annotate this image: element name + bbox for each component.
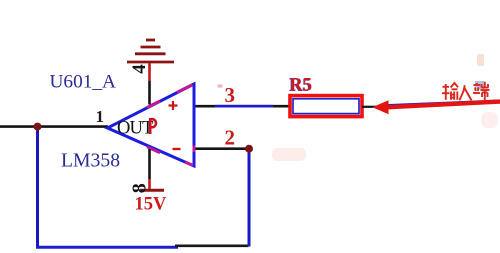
ground bbox=[127, 40, 174, 62]
resistor R5 body bbox=[290, 96, 362, 117]
op-amp + input symbol bbox=[169, 101, 178, 110]
svg-text:4: 4 bbox=[129, 64, 150, 74]
wire: feedback right vertical bbox=[248, 149, 251, 247]
wire: pin 8 power stub (op-amp bottom to 15V) bbox=[148, 149, 151, 179]
svg-text:1: 1 bbox=[96, 107, 105, 126]
wire: pin 1 output wire (left horizontal) bbox=[0, 125, 108, 128]
svg-text:2: 2 bbox=[225, 126, 236, 150]
svg-text:3: 3 bbox=[225, 83, 236, 107]
wire: pin 4 power stub (ground to op-amp top) bbox=[148, 63, 151, 81]
输入端 input-terminal label (drawn strokes) bbox=[442, 82, 490, 101]
wire: pin 2 inverting input wire bbox=[194, 147, 247, 150]
char 入 bbox=[460, 85, 472, 100]
faint pink photo artifacts bbox=[272, 148, 306, 161]
立 radical bbox=[474, 84, 481, 86]
wire: feedback left vertical bbox=[36, 128, 39, 249]
char 端 bbox=[473, 82, 490, 100]
magenta artifacts on triangle edges bbox=[147, 85, 194, 166]
车 radical bbox=[443, 86, 450, 88]
small pink artifact dot near pin 3 bbox=[218, 85, 223, 88]
selection highlight behind 端 bbox=[475, 81, 485, 90]
耑 top (山) bbox=[484, 82, 486, 88]
input arrow head bbox=[372, 100, 388, 114]
wire: pin 3 non-inverting input wire bbox=[194, 105, 292, 108]
svg-text:OUT: OUT bbox=[117, 119, 153, 139]
svg-text:8: 8 bbox=[129, 183, 151, 193]
svg-text:R5: R5 bbox=[290, 76, 313, 96]
thin blue line along arrow bbox=[386, 100, 500, 105]
wire: resistor to arrow bbox=[362, 106, 377, 108]
node B junction dot (pin2 / feedback) bbox=[245, 145, 253, 153]
svg-text:U601_A: U601_A bbox=[50, 72, 116, 93]
wire: feedback bottom left segment bbox=[36, 246, 178, 249]
op-amp U601_A triangle body bbox=[108, 84, 195, 166]
wire: feedback bottom right segment bbox=[175, 245, 249, 248]
svg-text:LM358: LM358 bbox=[61, 150, 120, 172]
char 输 bbox=[442, 83, 458, 100]
red P-shaped artifact over OUT bbox=[150, 118, 156, 134]
俞 roof bbox=[451, 83, 459, 88]
op-amp - input symbol bbox=[173, 148, 181, 150]
wire: pin 3 wire blue middle segment bbox=[215, 105, 273, 108]
俞 lower grid bbox=[450, 92, 452, 100]
input arrow shaft (red) bbox=[381, 102, 500, 108]
耑 bottom bbox=[481, 89, 490, 91]
15V supply bar bbox=[140, 189, 164, 192]
svg-text:15V: 15V bbox=[135, 195, 168, 215]
node A junction dot (pin1 wire / feedback) bbox=[34, 123, 42, 131]
